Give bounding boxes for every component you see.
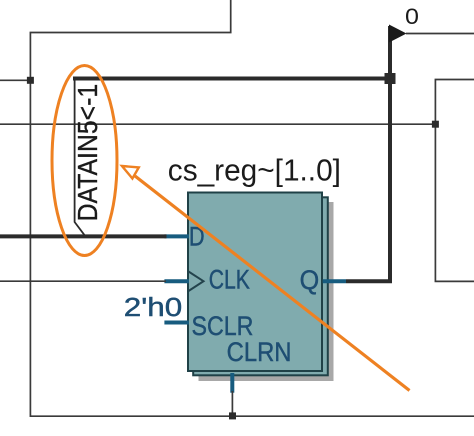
svg-text:SCLR: SCLR [191,311,253,341]
svg-text:CLK: CLK [209,265,250,295]
svg-text:CLRN: CLRN [227,338,292,368]
svg-text:DATAIN5<-1: DATAIN5<-1 [71,84,103,222]
svg-text:cs_reg~[1..0]: cs_reg~[1..0] [168,153,341,188]
svg-text:Q: Q [300,264,320,295]
svg-text:2'h0: 2'h0 [124,293,182,322]
svg-text:0: 0 [405,4,419,28]
